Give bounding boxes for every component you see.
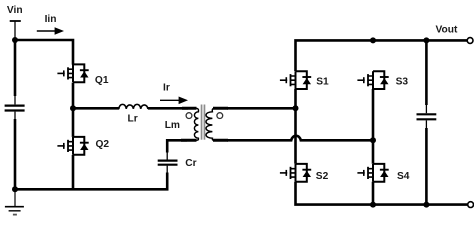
wire Vin stem: [14, 21, 16, 40]
node half-bridge midpoint: [70, 105, 76, 111]
svg-text:S3: S3: [396, 77, 409, 88]
svg-text:S1: S1: [316, 77, 329, 88]
node bottom rail Cout: [423, 202, 429, 208]
wire bottom rail secondary: [296, 182, 469, 205]
transformer T1 polarity dot primary: [186, 113, 192, 119]
svg-text:Iin: Iin: [45, 14, 57, 25]
ground: [5, 189, 24, 214]
svg-text:Vout: Vout: [436, 25, 458, 36]
transistor S1: [280, 71, 311, 89]
wire Cout top lead: [425, 40, 428, 105]
transistor Q2: [57, 137, 88, 155]
wire Cout bottom lead: [425, 120, 427, 128]
wire left rail lower: [14, 112, 16, 120]
transformer T1 secondary lead bars: [213, 108, 228, 140]
capacitor Cin: [5, 106, 25, 111]
transistor Q1: [57, 64, 88, 82]
svg-text:Vin: Vin: [7, 5, 23, 16]
transformer T1 primary lead bars: [181, 108, 197, 140]
wire half-bridge midpoint to Lr: [73, 107, 119, 110]
svg-text:S2: S2: [316, 171, 329, 182]
capacitor Cr: [158, 161, 178, 165]
wire Cr top to primary bottom lead: [166, 152, 168, 160]
svg-text:S4: S4: [397, 171, 410, 182]
wire bottom rail to Cr: [14, 173, 167, 190]
transistor S2: [280, 164, 311, 182]
svg-text:Ir: Ir: [163, 82, 170, 93]
transformer T1 polarity dot secondary: [217, 113, 223, 119]
node secondary bottom junction: [370, 137, 376, 143]
terminal Vout return: [468, 202, 474, 208]
wire Q2 source to bottom rail: [72, 155, 75, 189]
transformer T1 primary winding (Lm): [194, 108, 198, 140]
node secondary top junction: [293, 105, 299, 111]
node bottom rail S4: [370, 202, 376, 208]
inductor Lr: [119, 104, 148, 109]
wire secondary bottom with hop to bridge right leg: [227, 136, 373, 141]
wire Lr to transformer primary top: [148, 107, 188, 110]
wire left rail upper: [14, 40, 17, 97]
terminal Vin tick: [10, 20, 21, 22]
node top rail S3: [370, 37, 376, 43]
wire bridge left leg S1-S2: [294, 89, 297, 164]
wire S4 source to bottom rail: [372, 182, 375, 205]
transistor S4: [357, 164, 388, 182]
wire Q1 source to Q2 drain: [72, 83, 75, 137]
svg-text:Lr: Lr: [128, 113, 138, 124]
wire bridge right leg S3-S4: [372, 89, 375, 164]
node top rail Cout: [423, 37, 429, 43]
arrow Ir: [160, 97, 188, 105]
arrow Iin: [37, 27, 64, 35]
node Vin junction: [12, 37, 18, 43]
transistor S3: [357, 71, 388, 89]
transformer T1 core: [201, 105, 206, 140]
svg-text:Q1: Q1: [95, 75, 109, 86]
svg-text:Q2: Q2: [96, 139, 110, 150]
wire top-left from Vin node to Q1 drain: [14, 40, 73, 65]
wire secondary top to bridge left leg: [227, 107, 296, 110]
wire top rail: [296, 40, 468, 71]
capacitor Cout: [417, 114, 437, 119]
terminal Vout: [467, 38, 473, 44]
svg-text:Lm: Lm: [165, 120, 180, 131]
transformer T1 secondary winding: [206, 108, 214, 140]
svg-text:Cr: Cr: [185, 158, 196, 169]
node ground junction: [12, 186, 18, 192]
